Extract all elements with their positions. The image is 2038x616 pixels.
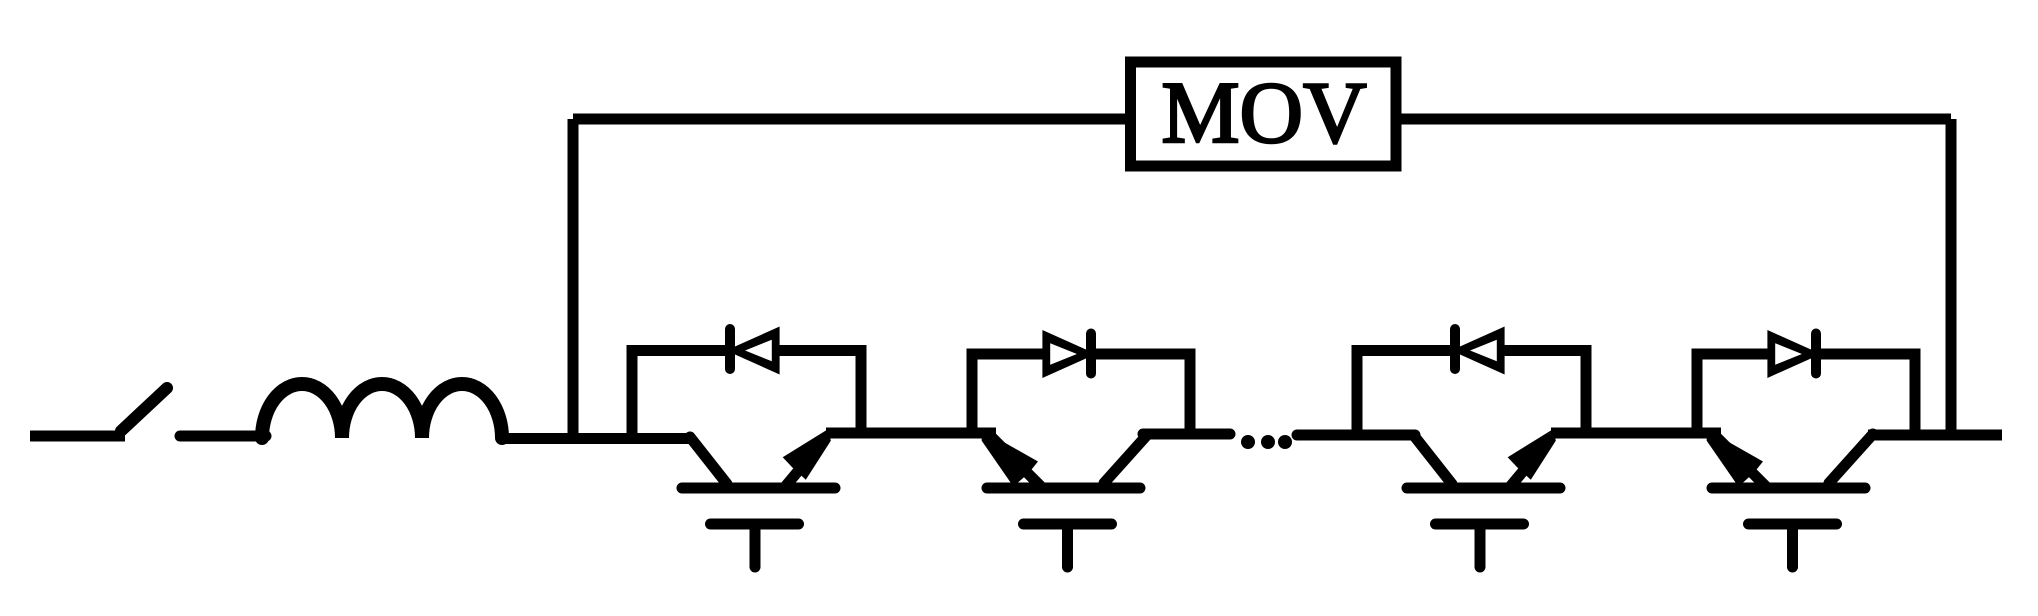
diode D1 cathode bar [725,329,735,369]
MOV wire left segment [573,114,1125,125]
varistor MOV box [1131,62,1397,166]
IGBT Q3 body bar [1407,483,1560,494]
IGBT Q1 emitter arrow [783,429,831,480]
IGBT Q1 free-wheel loop (left vertical and top wire left segment) [632,351,730,438]
IGBT Q3 gate stem [1475,524,1486,567]
IGBT Q4 emitter lead [1716,436,1768,488]
left riser wire (rail to MOV) [568,119,579,443]
IGBT Q1 emitter lead [784,439,825,488]
IGBT Q1 free-wheel loop (top wire right segment and right vertical) [776,351,861,434]
IGBT Q1 body bar [682,483,835,494]
IGBT Q4 body bar [1712,483,1865,494]
IGBT Q2 gate stem [1062,524,1073,567]
IGBT Q3 free-wheel loop (left vertical and top wire left segment) [1357,351,1455,438]
IGBT Q1 gate bar [711,519,799,530]
IGBT Q2 emitter arrow [982,430,1038,487]
IGBT Q4 gate stem [1787,524,1798,567]
IGBT Q4 emitter stub wire [1692,428,1721,439]
switch S1 blade (open) [121,388,167,431]
right riser wire (MOV to rail) [1946,119,1957,436]
wire W2 (switch to inductor) [180,431,266,442]
IGBT Q3 emitter lead [1509,439,1550,488]
diode D2 triangle (points right, hollow) [1042,330,1087,378]
wire W4 (Q1 emitter to Q2 emitter) [826,428,989,439]
IGBT Q3 free-wheel loop (top wire right segment and right vertical) [1501,351,1586,434]
IGBT Q3 emitter arrow [1508,429,1556,480]
wire W8 (Q4 collector to right terminal) [1868,430,2002,441]
IGBT Q3 emitter stub wire [1551,428,1586,439]
wire W7 (Q3 emitter to Q4 emitter) [1551,428,1714,439]
IGBT Q2 collector lead [1104,434,1148,483]
diode D1 triangle (points left, hollow) [735,327,780,375]
IGBT Q1 emitter stub wire [826,428,861,439]
IGBT Q2 body bar [987,483,1140,494]
diode D3 cathode bar [1450,329,1460,369]
IGBT Q4 free-wheel loop (top wire right segment and right vertical) [1817,354,1915,434]
IGBT Q4 emitter arrow [1707,430,1763,487]
IGBT Q1 gate stem [750,524,761,567]
wire W3 (inductor to Q1 collector) [502,433,690,444]
IGBT Q2 free-wheel loop (left vertical and top wire left segment) [972,354,1046,433]
IGBT Q4 free-wheel loop (left vertical and top wire left segment) [1697,354,1771,433]
IGBT Q2 gate bar [1024,519,1112,530]
IGBT Q2 emitter lead [991,436,1043,488]
IGBT Q4 collector lead [1829,434,1873,483]
diode D3 triangle (points left, hollow) [1460,327,1505,375]
ellipsis dots (continuation node) [1241,435,1255,449]
MOV wire right segment [1401,114,1951,125]
wire W6 (break to Q3 collector) [1297,430,1415,441]
svg-text:MOV: MOV [1161,65,1366,162]
IGBT Q2 free-wheel loop (top wire right segment and right vertical) [1092,354,1190,434]
IGBT Q2 emitter stub wire [967,428,996,439]
diode D2 cathode bar [1086,334,1096,374]
IGBT Q3 collector lead [1415,437,1452,484]
wire W5 (Q2 collector to break) [1143,429,1230,440]
IGBT Q4 gate bar [1749,519,1837,530]
wire W1 (left terminal) [30,431,125,442]
IGBT Q1 collector lead [690,437,727,484]
IGBT Q3 gate bar [1436,519,1524,530]
diode D4 cathode bar [1811,334,1821,374]
inductor L1 (3 arcs) [262,384,502,438]
diode D4 triangle (points right, hollow) [1767,330,1812,378]
